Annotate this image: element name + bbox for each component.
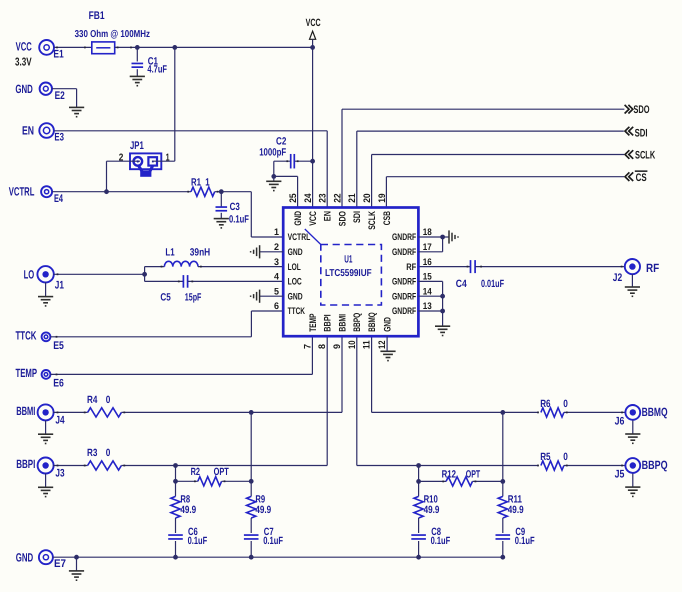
- label SDO: [633, 104, 649, 116]
- op-amp U1 body (LTC5599IUF): [283, 208, 418, 337]
- wire R1 to pin 1: [215, 192, 284, 237]
- wire BBPI node down to R2 row: [175, 466, 177, 497]
- wire JP1 pin2 to VCTRL: [107, 161, 141, 192]
- label VCTRL at E4: [9, 185, 35, 199]
- ground below J1: [38, 282, 53, 306]
- svg-text:19: 19: [377, 193, 388, 202]
- label R2 OPT: [191, 466, 230, 478]
- ground below J4: [38, 420, 53, 443]
- lead ticks R12: [442, 481, 476, 483]
- connector J4: [38, 404, 54, 420]
- svg-text:TTCK: TTCK: [16, 328, 37, 342]
- wire split to C5: [145, 280, 184, 282]
- svg-text:VCC: VCC: [16, 40, 32, 54]
- U1 left pin numbers: [274, 227, 280, 312]
- U1 pin-1 indicator line: [305, 229, 321, 245]
- wire R4 to pin 9: [121, 336, 342, 412]
- connector J2: [625, 259, 640, 274]
- junction C9 bottom: [500, 555, 505, 560]
- wire E1 to FB1: [54, 46, 92, 48]
- label J4: [55, 414, 65, 426]
- label J3: [55, 468, 64, 480]
- label E5: [53, 340, 64, 352]
- label FB1: [89, 10, 105, 22]
- svg-text:0.1uF: 0.1uF: [515, 535, 535, 547]
- wire C5 to pin 4: [188, 280, 284, 282]
- label C6 0.1uF: [188, 526, 208, 547]
- capacitor C8: [411, 535, 426, 539]
- junction R12 left R10 top: [416, 479, 421, 484]
- U1 bottom pin numbers: [302, 340, 388, 349]
- label TEMP at E6: [16, 366, 38, 380]
- U1 right pin numbers: [423, 227, 433, 312]
- resistor R5: [541, 461, 564, 470]
- svg-text:0: 0: [563, 451, 568, 463]
- label 3.3V: [15, 57, 32, 69]
- turret E7: [39, 550, 53, 564]
- svg-text:E3: E3: [54, 131, 64, 143]
- wire E4 to R1: [52, 191, 191, 193]
- junction pin 13 tie: [440, 309, 445, 314]
- svg-text:49.9: 49.9: [424, 504, 440, 516]
- label E1: [53, 48, 63, 60]
- turret E5: [42, 332, 51, 341]
- svg-text:49.9: 49.9: [255, 504, 271, 516]
- label R1 1: [191, 177, 210, 189]
- svg-text:E5: E5: [53, 340, 64, 352]
- wire C8 to gnd row: [418, 541, 420, 557]
- wire R11 to C9: [502, 518, 504, 533]
- svg-text:FB1: FB1: [89, 10, 105, 22]
- wire E6 to pin 7: [50, 336, 312, 374]
- lead ticks E5 E6: [56, 336, 58, 375]
- svg-text:0.1uF: 0.1uF: [229, 213, 249, 225]
- svg-text:E4: E4: [54, 193, 64, 205]
- port arrow CS: [625, 172, 633, 181]
- ground at pin 12: [380, 351, 395, 360]
- lead ticks C4: [467, 266, 623, 268]
- svg-text:LTC5599IUF: LTC5599IUF: [325, 268, 372, 279]
- svg-text:GND: GND: [288, 247, 303, 258]
- wire pin 12 stub: [386, 336, 388, 351]
- svg-text:4: 4: [274, 272, 280, 283]
- svg-text:24: 24: [303, 193, 314, 203]
- svg-text:LOC: LOC: [288, 277, 302, 288]
- svg-text:0: 0: [106, 447, 111, 459]
- wire R6 to J6: [564, 411, 625, 413]
- svg-text:J2: J2: [613, 272, 622, 284]
- label GND at E2: [15, 82, 33, 96]
- svg-text:R3: R3: [87, 447, 98, 459]
- connector J6: [625, 405, 640, 420]
- label GND at E7: [16, 550, 34, 564]
- inductor L1: [164, 261, 198, 266]
- wire SCLK net: [372, 155, 624, 208]
- label E7: [54, 558, 66, 570]
- ground at pin 5: [251, 290, 284, 303]
- junction BBPI to R8 column: [173, 463, 178, 468]
- wire C7 to gnd row: [250, 541, 252, 557]
- label JP1 pin 2: [119, 153, 124, 164]
- label U1: [344, 253, 352, 265]
- resistor R1: [191, 187, 215, 196]
- node C2 ground tie: [271, 174, 276, 179]
- label C9 0.1uF: [515, 526, 535, 547]
- svg-text:TTCK: TTCK: [288, 306, 305, 317]
- junction C7 bottom: [249, 555, 254, 560]
- svg-text:3.3V: 3.3V: [15, 57, 32, 69]
- svg-text:GNDRF: GNDRF: [392, 291, 416, 302]
- jumper JP1: [130, 153, 161, 176]
- svg-text:BBMQ: BBMQ: [367, 312, 378, 331]
- power symbol VCC arrow: [310, 31, 316, 39]
- svg-text:330 Ohm @ 100MHz: 330 Ohm @ 100MHz: [75, 29, 150, 40]
- svg-text:BBMQ: BBMQ: [642, 405, 668, 419]
- svg-text:GND: GND: [288, 291, 303, 302]
- svg-text:GND: GND: [293, 211, 304, 226]
- turret E2: [40, 83, 52, 95]
- svg-text:1000pF: 1000pF: [259, 146, 286, 158]
- svg-text:EN: EN: [323, 211, 334, 221]
- wire BBMQ node down to R11: [502, 412, 504, 496]
- wire C3 lower lead: [220, 213, 222, 219]
- resistor R3: [88, 461, 122, 470]
- label E6: [53, 378, 64, 390]
- connector J5: [625, 458, 640, 473]
- label CS with overline: [635, 170, 648, 184]
- turret E3: [39, 123, 54, 138]
- label BBMQ at J6: [642, 405, 668, 419]
- wire C9 to gnd row: [502, 541, 504, 557]
- ground below J5: [625, 474, 640, 497]
- label R9 49.9: [255, 494, 271, 516]
- U1 top pin names: [293, 211, 393, 230]
- svg-text:23: 23: [318, 193, 329, 202]
- capacitor C7: [244, 535, 259, 539]
- wire C1 upper lead: [136, 47, 138, 61]
- svg-text:C3: C3: [230, 201, 240, 213]
- junction R12 right R11 top: [500, 479, 505, 484]
- wire SDI net: [357, 131, 624, 207]
- connector J3: [38, 458, 54, 474]
- svg-text:15pF: 15pF: [185, 292, 202, 304]
- resistor R9: [247, 496, 256, 518]
- label JP1 pin 1: [166, 153, 170, 164]
- junction R2 right R9 top: [249, 479, 254, 484]
- junction BBMQ to R11 column: [500, 410, 505, 415]
- svg-text:SDO: SDO: [633, 104, 649, 116]
- svg-text:U1: U1: [344, 253, 352, 265]
- label BBPI at J3: [16, 457, 35, 471]
- wire split to L1: [145, 266, 165, 268]
- svg-text:CS: CS: [636, 172, 647, 184]
- label J5: [615, 469, 625, 481]
- ground at C2: [266, 176, 281, 190]
- lead ticks R6: [537, 412, 623, 414]
- svg-text:R2: R2: [191, 466, 201, 478]
- label VCC power symbol: [306, 17, 321, 29]
- svg-text:LOL: LOL: [288, 262, 301, 273]
- svg-text:21: 21: [347, 193, 358, 203]
- svg-text:0.1uF: 0.1uF: [431, 535, 451, 547]
- svg-text:1: 1: [274, 227, 280, 238]
- ferrite bead FB1: [92, 42, 115, 54]
- svg-text:SDI: SDI: [352, 211, 363, 223]
- wire ground node to pin 25: [274, 176, 298, 207]
- junction JP1 feed tap: [172, 45, 177, 50]
- lead ticks R2: [194, 480, 225, 482]
- wire R2 left lead: [176, 480, 198, 482]
- label 0.1uF: [229, 213, 249, 225]
- svg-text:7: 7: [302, 344, 313, 349]
- lead ticks top rail: [56, 47, 132, 49]
- svg-text:VCTRL: VCTRL: [288, 232, 311, 243]
- svg-text:BBMI: BBMI: [337, 314, 348, 332]
- lead ticks R3: [57, 465, 126, 467]
- label LO at J1: [24, 268, 35, 282]
- capacitor C6: [168, 535, 183, 539]
- svg-text:49.9: 49.9: [508, 504, 524, 516]
- lead ticks C2: [286, 160, 298, 162]
- resistor R4: [88, 408, 122, 417]
- junction E7 ground tap: [74, 555, 79, 560]
- svg-text:3: 3: [274, 257, 279, 268]
- port arrow SDO: [625, 105, 633, 114]
- label C2: [276, 136, 287, 148]
- wire R12 right lead: [473, 480, 503, 482]
- wire J3 to R3: [53, 465, 87, 467]
- label TTCK at E5: [16, 328, 37, 342]
- junction pins 17-18: [440, 235, 445, 240]
- wire pin 10 to BBPQ row: [357, 336, 539, 465]
- label VCC net at E1: [16, 40, 32, 54]
- resistor R10: [414, 496, 423, 518]
- svg-text:E7: E7: [54, 558, 66, 570]
- svg-text:CSB: CSB: [382, 211, 393, 225]
- svg-text:4.7uF: 4.7uF: [147, 64, 167, 76]
- label C3: [230, 201, 240, 213]
- svg-text:12: 12: [377, 340, 388, 349]
- ground at pin 2: [251, 245, 284, 258]
- wire C1 lower lead: [136, 69, 138, 76]
- label R12 OPT: [442, 468, 481, 480]
- svg-text:VCC: VCC: [306, 17, 321, 29]
- wire R3 to pin 8: [121, 336, 327, 465]
- ground below C3: [214, 219, 229, 228]
- svg-text:10: 10: [347, 340, 358, 349]
- ground below J6: [625, 420, 640, 443]
- label L1 39nH: [165, 247, 210, 259]
- svg-text:GND: GND: [16, 550, 34, 564]
- svg-text:0.1uF: 0.1uF: [263, 535, 283, 547]
- svg-text:9: 9: [332, 344, 343, 349]
- capacitor C1: [132, 63, 144, 67]
- ground below J2: [625, 274, 640, 296]
- wire C3 upper lead: [220, 192, 222, 207]
- wire E7 ground row: [53, 556, 503, 558]
- svg-text:TEMP: TEMP: [16, 366, 38, 380]
- port arrow SDI: [625, 127, 633, 136]
- lead ticks R1: [187, 191, 218, 193]
- label 1000pF: [259, 146, 286, 158]
- lead ticks R5: [537, 465, 623, 467]
- port arrow SCLK: [625, 150, 633, 159]
- svg-text:11: 11: [362, 340, 373, 349]
- svg-text:J6: J6: [615, 416, 625, 428]
- junction BBPQ to R10 column: [416, 463, 421, 468]
- svg-text:TEMP: TEMP: [308, 313, 319, 332]
- svg-text:EN: EN: [22, 123, 34, 137]
- svg-text:22: 22: [332, 193, 343, 202]
- label C8 0.1uF: [431, 526, 451, 547]
- ground below C1: [130, 76, 145, 85]
- label 330 Ohm @ 100MHz: [75, 29, 150, 40]
- label JP1: [130, 140, 144, 152]
- label BBPQ at J5: [642, 458, 668, 472]
- junction C1 tap: [135, 45, 140, 50]
- svg-text:J4: J4: [55, 414, 65, 426]
- svg-text:RF: RF: [406, 262, 416, 273]
- svg-text:RF: RF: [646, 261, 659, 275]
- wire pin 15 stub: [418, 281, 442, 326]
- svg-text:GND: GND: [15, 82, 33, 96]
- wire BBMI node down to R9: [250, 412, 252, 496]
- wire L1 to pin 3: [198, 266, 283, 268]
- connector J1: [37, 266, 53, 282]
- svg-text:R4: R4: [87, 394, 98, 406]
- svg-text:J5: J5: [615, 469, 625, 481]
- svg-text:C5: C5: [160, 292, 171, 304]
- wire C4 to J2: [475, 266, 625, 268]
- label EN at E3: [22, 123, 34, 137]
- node LO split: [142, 272, 147, 277]
- junction C8 bottom: [416, 555, 421, 560]
- svg-text:L1: L1: [165, 247, 174, 259]
- label LTC5599IUF: [325, 268, 372, 279]
- wire R5 to J5: [564, 465, 625, 467]
- U1 left pin names: [288, 232, 311, 317]
- wire R8 to C6: [175, 518, 177, 533]
- svg-text:0.01uF: 0.01uF: [481, 278, 504, 290]
- turret E6: [42, 370, 51, 379]
- wire LO split vertical: [144, 267, 146, 282]
- label E3: [54, 131, 64, 143]
- label C7 0.1uF: [263, 526, 283, 547]
- svg-text:E6: E6: [53, 378, 64, 390]
- label R3 0: [87, 447, 111, 459]
- wire CS net: [386, 177, 624, 208]
- wire pin 14 stub: [418, 295, 442, 297]
- wire J1 to split node: [53, 273, 144, 275]
- svg-text:25: 25: [288, 193, 299, 203]
- wire pin 11 to BBMQ row: [372, 336, 539, 412]
- ground at pin 18: [443, 230, 458, 243]
- wire pin 13 stub: [418, 310, 442, 312]
- label E4: [54, 193, 64, 205]
- junction C3 tap: [219, 189, 224, 194]
- U1 bottom pin names: [308, 312, 394, 331]
- junction VCC rail at symbol: [310, 45, 315, 50]
- label J6: [615, 416, 625, 428]
- U1 right pin names: [392, 232, 416, 317]
- wire pin 16 to C4: [418, 266, 470, 268]
- capacitor C9: [496, 535, 511, 539]
- wire E5 to pin 6: [50, 311, 283, 337]
- svg-text:BBMI: BBMI: [16, 404, 35, 418]
- svg-text:J3: J3: [55, 468, 64, 480]
- svg-text:BBPQ: BBPQ: [642, 458, 668, 472]
- wire pin 17 stub: [418, 237, 442, 252]
- svg-text:GNDRF: GNDRF: [392, 247, 416, 258]
- wire J4 to R4: [53, 411, 87, 413]
- svg-text:SCLK: SCLK: [367, 211, 378, 230]
- svg-text:39nH: 39nH: [190, 247, 210, 259]
- wire SDO net: [342, 109, 624, 207]
- label C1: [148, 55, 158, 67]
- label J2: [613, 272, 622, 284]
- capacitor C5: [183, 275, 187, 288]
- wire R12 left lead: [419, 480, 447, 482]
- lead ticks R4: [57, 412, 126, 414]
- svg-text:SDI: SDI: [635, 127, 648, 139]
- label R11 49.9: [508, 494, 524, 516]
- label C4 0.01uF: [456, 278, 505, 290]
- svg-text:49.9: 49.9: [180, 504, 196, 516]
- svg-text:GNDRF: GNDRF: [392, 277, 416, 288]
- svg-text:20: 20: [362, 193, 373, 202]
- resistor R2: [198, 477, 222, 486]
- label RF at J2: [646, 261, 659, 275]
- resistor R6: [541, 408, 564, 417]
- label R10 49.9: [424, 494, 440, 516]
- ground at E2: [69, 107, 84, 116]
- svg-text:8: 8: [317, 344, 328, 349]
- wire C2 to ground node: [273, 161, 275, 176]
- svg-text:SDO: SDO: [337, 211, 348, 226]
- junction pin 14 tie: [440, 294, 445, 299]
- svg-text:J1: J1: [55, 280, 64, 292]
- svg-text:6: 6: [274, 301, 279, 312]
- junction JP1 tap on VCTRL: [104, 189, 109, 194]
- svg-text:0: 0: [106, 394, 111, 406]
- svg-text:BBPI: BBPI: [16, 457, 35, 471]
- svg-text:1: 1: [166, 153, 170, 164]
- resistor R8: [171, 496, 180, 518]
- lead ticks LO row: [57, 266, 202, 283]
- wire C6 to gnd row: [175, 541, 177, 557]
- label J1: [55, 280, 64, 292]
- svg-text:BBPI: BBPI: [323, 314, 334, 331]
- ground below pins 13-15: [435, 326, 450, 335]
- wire FB1 to VCC rail: [115, 46, 313, 48]
- junction C6 bottom: [173, 555, 178, 560]
- ground below J3: [38, 474, 53, 497]
- resistor R11: [498, 496, 507, 518]
- svg-text:GNDRF: GNDRF: [392, 232, 416, 243]
- capacitor C3: [216, 207, 228, 211]
- wire R9 to C7: [250, 518, 252, 533]
- svg-text:E1: E1: [53, 48, 63, 60]
- svg-text:C4: C4: [456, 278, 467, 290]
- svg-text:E2: E2: [55, 90, 65, 102]
- label BBMI at J4: [16, 404, 35, 418]
- label 4.7uF: [147, 64, 167, 76]
- svg-text:BBPQ: BBPQ: [352, 313, 363, 332]
- capacitor C2: [291, 154, 295, 169]
- svg-text:GNDRF: GNDRF: [392, 306, 416, 317]
- svg-text:GND: GND: [383, 317, 394, 332]
- svg-text:OPT: OPT: [466, 468, 481, 480]
